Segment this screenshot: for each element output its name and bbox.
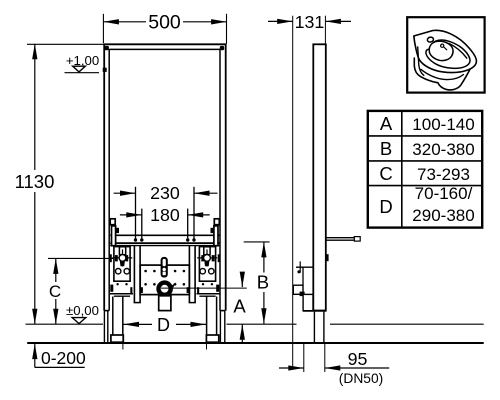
- side view wall bracket: [293, 261, 313, 310]
- raw floor line: [27, 342, 484, 344]
- frame right lower strip: [220, 311, 224, 343]
- svg-text:230: 230: [150, 183, 180, 203]
- svg-text:A: A: [233, 296, 246, 317]
- drain pipe: [159, 296, 171, 311]
- svg-text:±0,00: ±0,00: [66, 303, 99, 318]
- frame top rail: [103, 44, 226, 49]
- crossbar rail: [110, 235, 220, 245]
- dimension 1130: [15, 44, 103, 324]
- left leg: [113, 297, 123, 335]
- dimension C: [48, 258, 113, 324]
- svg-text:(DN50): (DN50): [339, 371, 383, 386]
- svg-text:290-380: 290-380: [412, 206, 474, 225]
- svg-text:95: 95: [348, 349, 368, 369]
- level mark +1,00 tick on rail: [103, 68, 107, 72]
- rail tick right: [218, 254, 220, 262]
- side plate right: [211, 219, 220, 246]
- svg-text:1130: 1130: [15, 171, 55, 192]
- dimension 180: [120, 205, 210, 239]
- svg-text:B: B: [380, 138, 392, 159]
- svg-text:70-160/: 70-160/: [415, 184, 473, 203]
- dimension A: [233, 272, 246, 342]
- left foot: [111, 335, 123, 342]
- right foot: [206, 335, 218, 342]
- side view joint line: [303, 310, 326, 312]
- frame left rail: [104, 44, 109, 311]
- center plate: [140, 265, 189, 295]
- dimension 131: [268, 12, 351, 369]
- svg-text:D: D: [157, 315, 170, 335]
- bracket left: [110, 247, 143, 297]
- bidet icon box: [407, 17, 484, 92]
- side plate left: [110, 219, 119, 246]
- svg-text:180: 180: [150, 205, 180, 225]
- frame right rail: [220, 44, 226, 311]
- svg-text:0-200: 0-200: [41, 348, 86, 368]
- rail tick left: [110, 254, 112, 262]
- table: [368, 111, 482, 228]
- drain circle: [157, 281, 176, 296]
- svg-text:100-140: 100-140: [412, 115, 474, 134]
- side view bar tick: [326, 254, 329, 261]
- dimension 230: [114, 183, 218, 238]
- right leg: [207, 297, 217, 335]
- hanger strip left: [134, 246, 141, 303]
- svg-text:500: 500: [148, 11, 181, 33]
- svg-text:320-380: 320-380: [412, 140, 474, 159]
- level symbol ±0,00: [66, 303, 99, 324]
- dimension D: [123, 315, 207, 350]
- drain centerline to A: [161, 287, 247, 289]
- side view lower leg: [314, 312, 324, 343]
- bracket right: [187, 247, 220, 297]
- corner screw right: [220, 46, 224, 50]
- dimension 0-200: [32, 344, 86, 368]
- dimension 95: [279, 344, 389, 386]
- level symbol +1,00: [65, 53, 100, 73]
- svg-text:C: C: [379, 163, 392, 184]
- dimension B: [244, 242, 270, 324]
- svg-text:131: 131: [295, 12, 325, 32]
- frame left lower strip: [104, 311, 107, 343]
- svg-text:D: D: [379, 196, 392, 217]
- bidet icon: [414, 30, 477, 90]
- crossbar hole dots: [134, 238, 196, 241]
- svg-text:73-293: 73-293: [417, 165, 470, 184]
- corner screw left: [105, 46, 109, 50]
- svg-text:A: A: [380, 113, 393, 134]
- hanger strip right: [189, 246, 196, 303]
- svg-text:B: B: [257, 272, 269, 293]
- svg-text:C: C: [49, 282, 61, 301]
- clamp bolt: [161, 257, 168, 278]
- floor level line ±0,00: [26, 323, 484, 325]
- side view bar: [313, 44, 326, 310]
- dimension 500: [103, 11, 226, 43]
- side view supply pipe: [326, 237, 360, 242]
